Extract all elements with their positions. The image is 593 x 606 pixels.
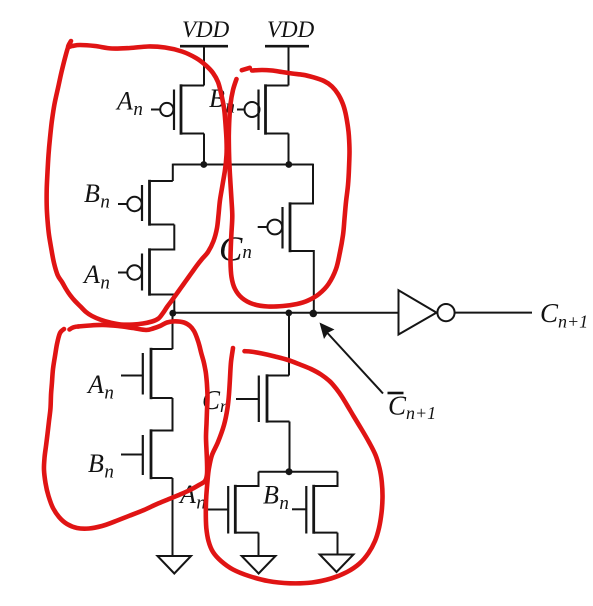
label A_n (gate of N1) bbox=[86, 370, 114, 404]
label C_n (gate of N3) bbox=[202, 385, 229, 416]
VDD label 2 bbox=[267, 17, 315, 42]
annotation loop 2 (red, around right PMOS group) bbox=[229, 70, 350, 307]
wire N2 drain to ground bbox=[172, 478, 174, 556]
annotation loop 3 (red, around left NMOS group) bbox=[44, 321, 208, 528]
wire N1 drain to N2 source bbox=[151, 398, 173, 431]
wire parallel pair rail bbox=[259, 471, 338, 473]
label A_n (gate of P1) bbox=[115, 87, 143, 121]
label A_n (gate of P4) bbox=[82, 260, 110, 294]
svg-text:Cn+1: Cn+1 bbox=[388, 391, 436, 424]
annotation loop 4 (red, around right NMOS group) bbox=[206, 348, 383, 583]
label B_n (gate of N2) bbox=[88, 449, 114, 483]
transistor N3 (NMOS, gate C_n) bbox=[236, 374, 290, 422]
label B_n (gate of P3) bbox=[84, 179, 110, 213]
wire inverter output bbox=[455, 312, 532, 314]
wire VDD2 to P2 source bbox=[288, 46, 290, 85]
label C_n+1 (inverter output) bbox=[540, 298, 588, 332]
svg-text:An: An bbox=[115, 87, 143, 121]
transistor P3 (PMOS, gate B_n) bbox=[118, 180, 174, 226]
annotation loop 1 (red, around left PMOS group) bbox=[47, 41, 227, 325]
transistor P2 (PMOS, gate B_n) bbox=[237, 84, 289, 134]
wire P1 drain to node line1 bbox=[203, 134, 205, 165]
junction dot line1/P1 bbox=[200, 161, 207, 168]
annotation loop 2 start dash (red) bbox=[242, 68, 250, 70]
transistor P4 (PMOS, gate A_n) bbox=[118, 248, 174, 295]
wire N5 drain to ground bbox=[337, 533, 339, 555]
svg-text:Bn: Bn bbox=[88, 449, 114, 483]
svg-text:Bn: Bn bbox=[263, 481, 289, 515]
wire P3 drain to P4 source bbox=[150, 225, 175, 250]
junction dot output/N3 branch bbox=[285, 310, 292, 317]
wire rail to N4 source bbox=[235, 472, 258, 486]
annotation loop 3 start hook (red) bbox=[70, 327, 79, 330]
wire P4 drain to output node bbox=[173, 295, 175, 314]
svg-text:An: An bbox=[86, 370, 114, 404]
transistor N5 (NMOS, gate B_n) bbox=[292, 485, 338, 534]
junction dot rail/N3 bbox=[286, 468, 293, 475]
inverter U1 bbox=[399, 290, 455, 334]
wire VDD1 to P1 source bbox=[203, 46, 205, 85]
wire P2 drain to node line1 bbox=[288, 134, 290, 165]
svg-text:An: An bbox=[82, 260, 110, 294]
wire output node line bbox=[173, 312, 399, 314]
wire output node to N3 bbox=[288, 313, 290, 376]
svg-text:Cn+1: Cn+1 bbox=[540, 298, 588, 332]
label A_n (gate of N4) bbox=[178, 480, 206, 514]
ground symbol 3 bbox=[320, 555, 354, 573]
wire line1 to P3 source bbox=[172, 164, 174, 181]
label B_n (gate of N5) bbox=[263, 481, 289, 515]
VDD rail bar 1 bbox=[180, 45, 228, 48]
svg-text:VDD: VDD bbox=[267, 17, 315, 42]
VDD label 1 bbox=[182, 17, 230, 42]
junction dot line1/P2 bbox=[285, 161, 292, 168]
wire N3 drain to pair rail bbox=[289, 422, 291, 472]
transistor N4 (NMOS, gate A_n) bbox=[205, 485, 259, 534]
label Cbar_n+1 (inverted carry node) bbox=[388, 391, 437, 424]
transistor N2 (NMOS, gate B_n) bbox=[121, 429, 173, 479]
wire output node to N1 bbox=[172, 313, 174, 349]
wire N4 drain to ground bbox=[258, 533, 260, 556]
svg-text:Cn: Cn bbox=[219, 230, 252, 269]
transistor N1 (NMOS, gate A_n) bbox=[121, 348, 173, 399]
junction dot output/P5 branch bbox=[310, 310, 318, 318]
label C_n (gate of P5) bbox=[219, 230, 252, 269]
wire node line1 (internal PMOS node) bbox=[173, 164, 313, 166]
wire line1 to P5 source bbox=[290, 164, 313, 204]
arrow annotation to Cbar node bbox=[320, 323, 384, 394]
wire rail to N5 source bbox=[314, 472, 338, 486]
label B_n (gate of P2) bbox=[209, 84, 235, 118]
transistor P5 (PMOS, gate C_n) bbox=[258, 202, 290, 252]
ground symbol 1 bbox=[158, 556, 192, 574]
svg-text:VDD: VDD bbox=[182, 17, 230, 42]
transistor P1 (PMOS, gate A_n) bbox=[151, 84, 204, 134]
VDD rail bar 2 bbox=[265, 45, 309, 48]
junction dot output/left branch bbox=[169, 310, 176, 317]
ground symbol 2 bbox=[242, 556, 276, 574]
svg-text:Bn: Bn bbox=[84, 179, 110, 213]
wire P5 drain to output node bbox=[290, 251, 314, 313]
